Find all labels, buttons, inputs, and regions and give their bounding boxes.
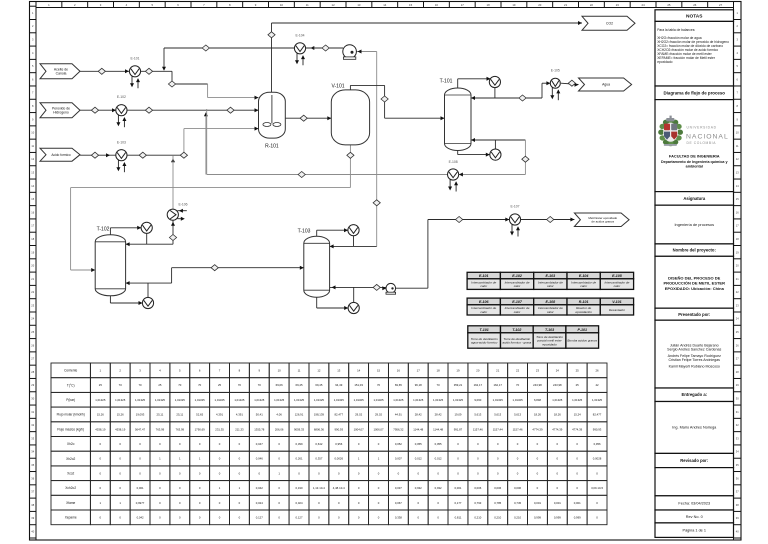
svg-text:Xco2: Xco2 (67, 471, 74, 475)
svg-text:Cristian Felipe Torres Arcinie: Cristian Felipe Torres Arciniegas (669, 358, 721, 362)
svg-text:R-101: R-101 (265, 144, 279, 150)
svg-text:26: 26 (693, 3, 697, 7)
svg-text:25: 25 (576, 383, 580, 387)
svg-text:1,01325: 1,01325 (572, 398, 583, 402)
svg-text:0,999: 0,999 (574, 515, 581, 519)
svg-text:14: 14 (357, 368, 361, 372)
svg-text:1,01325: 1,01325 (254, 398, 265, 402)
svg-text:162,17: 162,17 (493, 383, 502, 387)
svg-text:V-101: V-101 (331, 84, 344, 90)
svg-text:0,042: 0,042 (256, 486, 263, 490)
svg-text:0,001: 0,001 (574, 501, 581, 505)
svg-text:Decantador: Decantador (609, 308, 626, 312)
svg-text:Ing. Mario Andres Noriega: Ing. Mario Andres Noriega (672, 426, 717, 430)
svg-text:E-107: E-107 (512, 300, 523, 304)
svg-text:13: 13 (357, 3, 361, 7)
svg-text:15: 15 (409, 3, 413, 7)
svg-text:T-102: T-102 (512, 328, 521, 332)
svg-text:1144,48: 1144,48 (433, 427, 443, 431)
svg-text:25: 25 (158, 383, 162, 387)
svg-text:E-108: E-108 (449, 160, 458, 164)
svg-text:991,87: 991,87 (454, 427, 463, 431)
svg-text:25,11: 25,11 (176, 413, 183, 417)
svg-text:70: 70 (437, 383, 441, 387)
svg-text:1144,48: 1144,48 (413, 427, 423, 431)
svg-text:126,91: 126,91 (295, 413, 304, 417)
svg-text:82,477: 82,477 (334, 413, 343, 417)
svg-text:FACULTAD DE INGENIERIA: FACULTAD DE INGENIERIA (669, 154, 720, 159)
svg-text:0,932: 0,932 (415, 486, 422, 490)
svg-text:0,261: 0,261 (296, 457, 303, 461)
svg-text:ambiental: ambiental (686, 164, 703, 168)
svg-text:1,01325: 1,01325 (135, 398, 146, 402)
svg-text:R-101: R-101 (579, 300, 589, 304)
svg-text:0,357: 0,357 (315, 457, 322, 461)
svg-text:1,01325: 1,01325 (274, 398, 285, 402)
svg-text:25: 25 (576, 368, 580, 372)
svg-text:0,006: 0,006 (514, 486, 521, 490)
svg-text:0,210: 0,210 (474, 515, 481, 519)
svg-text:Xch2o2: Xch2o2 (65, 486, 76, 490)
svg-text:E-103: E-103 (117, 141, 126, 145)
svg-text:1,01325: 1,01325 (413, 398, 424, 402)
svg-text:17: 17 (461, 3, 465, 7)
svg-text:Flujo molar (kmol/h): Flujo molar (kmol/h) (57, 413, 85, 417)
svg-text:82,477: 82,477 (593, 413, 602, 417)
svg-text:UNIVERSIDAD: UNIVERSIDAD (687, 126, 717, 130)
svg-text:7956,32: 7956,32 (393, 427, 404, 431)
svg-text:25: 25 (99, 383, 103, 387)
svg-text:calor: calor (514, 310, 522, 314)
svg-text:70: 70 (139, 383, 143, 387)
svg-text:calor: calor (547, 310, 555, 314)
svg-text:P(bar): P(bar) (66, 398, 75, 402)
svg-text:1,01325: 1,01325 (294, 398, 305, 402)
svg-text:4774,39: 4774,39 (572, 427, 583, 431)
svg-text:Asignatura: Asignatura (683, 196, 706, 201)
svg-text:69,45: 69,45 (315, 383, 322, 387)
svg-text:1,01325: 1,01325 (433, 398, 444, 402)
svg-text:359,21: 359,21 (454, 383, 463, 387)
svg-text:PRODUCCIÓN DE METIL ESTER: PRODUCCIÓN DE METIL ESTER (664, 281, 726, 286)
svg-text:29,02: 29,02 (355, 413, 362, 417)
svg-text:NACIONAL: NACIONAL (686, 134, 729, 141)
svg-text:T-101: T-101 (440, 79, 453, 85)
svg-text:198,139: 198,139 (314, 413, 325, 417)
svg-text:9,060: 9,060 (474, 398, 481, 402)
svg-text:0,127: 0,127 (256, 515, 263, 519)
svg-text:1,01325: 1,01325 (234, 398, 245, 402)
svg-text:Canola: Canola (56, 71, 67, 75)
svg-text:0,042: 0,042 (137, 515, 144, 519)
svg-text:1004,07: 1004,07 (354, 427, 365, 431)
svg-text:E-102: E-102 (117, 95, 126, 99)
svg-text:T-102: T-102 (97, 227, 110, 233)
svg-text:Agua: Agua (602, 83, 610, 87)
svg-text:24: 24 (556, 368, 560, 372)
svg-text:Fecha: 03/04/2023: Fecha: 03/04/2023 (678, 501, 710, 505)
svg-text:1,01325: 1,01325 (214, 398, 225, 402)
svg-text:T-101: T-101 (480, 328, 489, 332)
svg-text:19: 19 (456, 368, 460, 372)
svg-text:1006,07: 1006,07 (373, 427, 384, 431)
svg-text:44,91: 44,91 (395, 413, 402, 417)
svg-text:calor: calor (580, 284, 588, 288)
svg-text:0,067: 0,067 (395, 501, 402, 505)
svg-text:T(°C): T(°C) (67, 383, 75, 387)
svg-text:990,93: 990,93 (593, 427, 602, 431)
svg-text:763,99: 763,99 (156, 427, 165, 431)
svg-text:15,26: 15,26 (97, 413, 104, 417)
svg-text:6,848: 6,848 (534, 398, 541, 402)
svg-text:70: 70 (198, 383, 202, 387)
svg-text:0,811: 0,811 (455, 515, 462, 519)
svg-text:231,35: 231,35 (215, 427, 224, 431)
svg-text:12: 12 (332, 3, 336, 7)
svg-text:28,42: 28,42 (435, 413, 442, 417)
svg-text:25,11: 25,11 (157, 413, 164, 417)
svg-text:Rev No. 0: Rev No. 0 (686, 515, 703, 519)
svg-text:22: 22 (590, 3, 594, 7)
svg-text:9059,33: 9059,33 (294, 427, 305, 431)
svg-text:990,93: 990,93 (334, 427, 343, 431)
svg-text:0,024: 0,024 (296, 501, 303, 505)
svg-text:0,642: 0,642 (315, 442, 322, 446)
svg-text:18,26: 18,26 (554, 413, 561, 417)
svg-text:243,98: 243,98 (533, 383, 542, 387)
svg-text:1157,46: 1157,46 (513, 427, 523, 431)
svg-text:20: 20 (476, 368, 480, 372)
svg-text:calor: calor (514, 284, 522, 288)
svg-text:4774,39: 4774,39 (552, 427, 563, 431)
svg-text:10: 10 (278, 368, 282, 372)
svg-text:0,210: 0,210 (494, 515, 501, 519)
svg-text:0,932: 0,932 (435, 486, 442, 490)
svg-text:Para la tabla de balances:: Para la tabla de balances: (657, 28, 695, 32)
svg-text:21: 21 (564, 3, 568, 7)
svg-text:0,037: 0,037 (395, 486, 402, 490)
svg-text:19,093: 19,093 (136, 413, 145, 417)
svg-text:0,127: 0,127 (296, 515, 303, 519)
svg-text:epoxidación: epoxidación (575, 310, 592, 314)
svg-text:1,01325: 1,01325 (155, 398, 166, 402)
svg-text:calor: calor (480, 310, 488, 314)
svg-text:94,49: 94,49 (335, 383, 342, 387)
svg-text:26: 26 (596, 368, 600, 372)
svg-text:69,45: 69,45 (296, 383, 303, 387)
svg-text:1,01325: 1,01325 (354, 398, 365, 402)
svg-text:23: 23 (536, 368, 540, 372)
svg-text:0,012: 0,012 (435, 457, 442, 461)
svg-text:0,999: 0,999 (554, 515, 561, 519)
svg-text:T-103: T-103 (298, 229, 311, 235)
svg-text:211,33: 211,33 (235, 427, 244, 431)
svg-text:0,956: 0,956 (594, 442, 601, 446)
svg-text:15,24: 15,24 (574, 413, 581, 417)
svg-text:4538,19: 4538,19 (95, 427, 106, 431)
svg-text:Xh2o: Xh2o (67, 442, 75, 446)
svg-text:1,01325: 1,01325 (334, 398, 345, 402)
svg-text:4,391: 4,391 (236, 413, 243, 417)
svg-text:Departamento de Ingeniería quí: Departamento de Ingeniería química y (661, 160, 729, 164)
svg-text:1157,46: 1157,46 (473, 427, 483, 431)
svg-text:12: 12 (317, 368, 321, 372)
svg-text:1,01325: 1,01325 (175, 398, 186, 402)
svg-text:70: 70 (178, 383, 182, 387)
svg-text:V-101: V-101 (612, 300, 621, 304)
svg-text:28,42: 28,42 (415, 413, 422, 417)
svg-text:0,055: 0,055 (415, 442, 422, 446)
svg-text:EPOXIDADO: Ubicación: China: EPOXIDADO: Ubicación: China (665, 286, 725, 291)
svg-text:0,006: 0,006 (494, 486, 501, 490)
svg-text:Hidrogeno: Hidrogeno (53, 110, 69, 114)
svg-text:763,99: 763,99 (176, 427, 185, 431)
svg-text:0,793: 0,793 (474, 501, 481, 505)
svg-text:18: 18 (487, 3, 491, 7)
svg-text:calor: calor (547, 284, 555, 288)
svg-text:1,01325: 1,01325 (552, 398, 563, 402)
svg-text:Acido formico: Acido formico (51, 153, 71, 157)
svg-text:0,9977: 0,9977 (136, 501, 145, 505)
svg-text:E-106: E-106 (479, 300, 490, 304)
svg-text:27: 27 (719, 3, 723, 7)
svg-text:70: 70 (258, 383, 262, 387)
svg-text:0,024: 0,024 (256, 501, 263, 505)
svg-text:0,055: 0,055 (435, 442, 442, 446)
svg-text:E-106: E-106 (178, 203, 187, 207)
svg-text:206,06: 206,06 (275, 427, 284, 431)
svg-text:E-101: E-101 (130, 57, 139, 61)
svg-text:Xepame: Xepame (65, 516, 77, 520)
svg-text:4,06: 4,06 (276, 413, 282, 417)
svg-text:Nombre del proyecto:: Nombre del proyecto: (673, 248, 716, 253)
svg-text:E-105: E-105 (612, 274, 623, 278)
svg-text:0,006: 0,006 (474, 486, 481, 490)
svg-text:4,391: 4,391 (216, 413, 223, 417)
svg-text:6806,36: 6806,36 (314, 427, 325, 431)
svg-text:1,01325: 1,01325 (453, 398, 464, 402)
svg-text:151,03: 151,03 (354, 383, 363, 387)
svg-text:E-101: E-101 (479, 274, 489, 278)
svg-text:1,01325: 1,01325 (592, 398, 603, 402)
svg-text:5,613: 5,613 (474, 413, 481, 417)
svg-text:16: 16 (397, 368, 401, 372)
svg-text:23: 23 (616, 3, 620, 7)
svg-text:1,01325: 1,01325 (513, 398, 524, 402)
svg-text:Flujo masico (kg/h): Flujo masico (kg/h) (57, 427, 84, 431)
svg-text:0,785: 0,785 (494, 501, 501, 505)
svg-text:0,999: 0,999 (534, 515, 541, 519)
svg-text:Página 1 de 1: Página 1 de 1 (683, 529, 706, 533)
svg-text:1,01325: 1,01325 (195, 398, 206, 402)
svg-text:0,0028: 0,0028 (593, 457, 602, 461)
svg-text:Presentado por:: Presentado por: (678, 312, 710, 317)
svg-text:0,001: 0,001 (137, 486, 144, 490)
svg-text:19: 19 (512, 3, 516, 7)
svg-text:CO2: CO2 (606, 21, 613, 25)
svg-text:1355,78: 1355,78 (254, 427, 265, 431)
svg-text:Entregado a:: Entregado a: (681, 392, 707, 397)
svg-text:E-108: E-108 (546, 300, 556, 304)
svg-text:10: 10 (280, 3, 284, 7)
svg-text:NOTAS: NOTAS (686, 13, 703, 19)
svg-text:1,01325: 1,01325 (393, 398, 404, 402)
svg-text:Corriente: Corriente (64, 369, 77, 373)
svg-text:4,48·10-4: 4,48·10-4 (333, 486, 345, 490)
svg-text:0,007: 0,007 (395, 457, 402, 461)
svg-text:11: 11 (306, 3, 309, 7)
svg-text:1,01325: 1,01325 (115, 398, 126, 402)
svg-text:0,052: 0,052 (395, 442, 402, 446)
svg-text:20: 20 (538, 3, 542, 7)
svg-text:5,613: 5,613 (514, 413, 521, 417)
svg-text:calor: calor (480, 284, 488, 288)
svg-text:17: 17 (417, 368, 421, 372)
svg-text:epoxidado: epoxidado (542, 343, 557, 347)
svg-text:1,01325: 1,01325 (314, 398, 325, 402)
svg-text:50,41: 50,41 (256, 413, 263, 417)
svg-text:42: 42 (596, 383, 600, 387)
svg-text:0,001: 0,001 (454, 486, 461, 490)
svg-text:T-103: T-103 (545, 328, 554, 332)
svg-text:Bomba acidos grasos: Bomba acidos grasos (567, 339, 597, 343)
svg-text:70: 70 (238, 383, 242, 387)
svg-text:1,01325: 1,01325 (95, 398, 106, 402)
svg-text:14: 14 (383, 3, 387, 7)
svg-text:3,09·10-5: 3,09·10-5 (591, 486, 603, 490)
svg-text:18: 18 (437, 368, 441, 372)
svg-text:DE COLOMBIA: DE COLOMBIA (687, 141, 717, 145)
svg-text:E-107: E-107 (510, 205, 519, 209)
svg-text:0,190: 0,190 (296, 486, 303, 490)
svg-text:11: 11 (298, 368, 301, 372)
svg-text:0,338: 0,338 (395, 515, 402, 519)
svg-text:Xfame: Xfame (66, 501, 75, 505)
svg-text:1157,44: 1157,44 (493, 427, 503, 431)
svg-text:96,18: 96,18 (415, 383, 422, 387)
svg-text:4774,39: 4774,39 (532, 427, 543, 431)
svg-text:15: 15 (377, 368, 381, 372)
svg-text:25: 25 (667, 3, 671, 7)
svg-text:de acidos grasos: de acidos grasos (591, 219, 614, 223)
svg-text:Revisado por:: Revisado por: (680, 458, 708, 463)
svg-text:5647,47: 5647,47 (135, 427, 146, 431)
svg-text:epoxidado: epoxidado (657, 60, 672, 64)
svg-text:162,17: 162,17 (474, 383, 483, 387)
svg-text:22: 22 (516, 368, 520, 372)
svg-text:Kamil Mayerli Rubiano Moscoso: Kamil Mayerli Rubiano Moscoso (669, 365, 720, 369)
svg-text:0,047: 0,047 (256, 442, 263, 446)
svg-text:18,26: 18,26 (534, 413, 541, 417)
svg-text:13: 13 (337, 368, 341, 372)
svg-text:1790,69: 1790,69 (195, 427, 206, 431)
svg-text:70: 70 (119, 383, 123, 387)
svg-text:E-105: E-105 (551, 69, 560, 73)
svg-text:P-101: P-101 (577, 328, 587, 332)
svg-text:E-104: E-104 (295, 34, 304, 38)
svg-text:acido formico - grasa: acido formico - grasa (502, 341, 531, 345)
svg-text:24: 24 (642, 3, 646, 7)
svg-text:Ingeniería de procesos: Ingeniería de procesos (674, 222, 714, 227)
svg-text:1,01325: 1,01325 (373, 398, 384, 402)
svg-text:21: 21 (496, 368, 500, 372)
svg-text:70: 70 (377, 383, 381, 387)
svg-text:0,210: 0,210 (514, 515, 521, 519)
svg-text:agua-acido formico: agua-acido formico (471, 341, 498, 345)
svg-text:Diagrama de flujo de proceso: Diagrama de flujo de proceso (664, 91, 726, 96)
svg-text:5,613: 5,613 (494, 413, 501, 417)
svg-text:1,13·10-4: 1,13·10-4 (313, 486, 325, 490)
svg-text:E-104: E-104 (579, 274, 589, 278)
svg-text:0,399: 0,399 (296, 442, 303, 446)
svg-text:Xh2o2: Xh2o2 (66, 457, 75, 461)
svg-text:0,046: 0,046 (256, 457, 263, 461)
svg-text:4538,19: 4538,19 (115, 427, 126, 431)
svg-text:15,26: 15,26 (117, 413, 124, 417)
svg-text:1,01325: 1,01325 (493, 398, 504, 402)
svg-text:0,001: 0,001 (534, 501, 541, 505)
svg-text:16: 16 (435, 3, 439, 7)
svg-text:29,02: 29,02 (375, 413, 382, 417)
svg-text:0,956: 0,956 (335, 442, 342, 446)
svg-text:Sergio Andres Sanchez Cardenas: Sergio Andres Sanchez Cardenas (667, 347, 721, 351)
svg-text:69,65: 69,65 (395, 383, 402, 387)
svg-text:E-102: E-102 (512, 274, 522, 278)
svg-text:25: 25 (218, 383, 222, 387)
svg-text:52,65: 52,65 (196, 413, 203, 417)
svg-text:69,06: 69,06 (276, 383, 283, 387)
svg-text:0,745: 0,745 (514, 501, 521, 505)
svg-text:70: 70 (516, 383, 520, 387)
svg-text:0,012: 0,012 (415, 457, 422, 461)
svg-text:243,98: 243,98 (553, 383, 562, 387)
svg-text:0,0026: 0,0026 (334, 457, 343, 461)
svg-text:calor: calor (614, 284, 622, 288)
svg-text:0,001: 0,001 (554, 501, 561, 505)
svg-text:19,09: 19,09 (454, 413, 461, 417)
svg-text:0,177: 0,177 (454, 501, 461, 505)
svg-text:E-103: E-103 (546, 274, 556, 278)
